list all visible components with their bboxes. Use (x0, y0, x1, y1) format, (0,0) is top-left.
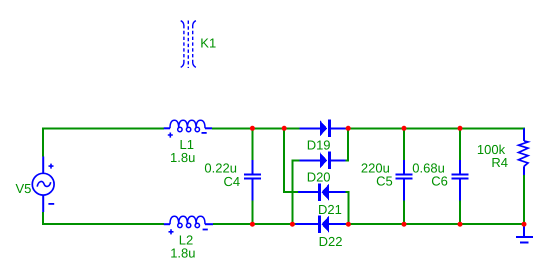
wire C5 bottom (403, 201, 405, 225)
voltage source V5 (32, 157, 54, 213)
capacitor C5 (396, 160, 413, 201)
wire bridge D20 to bottom rail vertical (292, 160, 299, 224)
diode D19 (300, 120, 346, 137)
inductor L1 (164, 120, 212, 137)
wire bridge left vertical (top rail to D21) (284, 128, 298, 192)
svg-text:R4: R4 (491, 155, 508, 170)
junction dots top rail (250, 126, 463, 131)
transformer coupling K1 (181, 21, 196, 69)
svg-text:1.8u: 1.8u (170, 150, 195, 165)
wire bottom rail middle (213, 223, 296, 225)
diode D22 (296, 216, 346, 233)
wire C6 bottom (459, 201, 461, 225)
svg-text:C5: C5 (376, 174, 393, 189)
wire bottom rail left (43, 212, 164, 224)
inductor L2 (164, 216, 213, 234)
junction dots bottom rail (250, 222, 527, 227)
resistor R4 (519, 128, 529, 175)
svg-text:D22: D22 (319, 234, 343, 249)
diode D20 (300, 152, 346, 169)
capacitor C4 (244, 160, 261, 201)
wire top rail middle (212, 127, 300, 129)
svg-text:C6: C6 (431, 173, 448, 188)
wire bottom rail right (345, 223, 524, 225)
svg-text:V5: V5 (16, 181, 32, 196)
svg-text:K1: K1 (200, 36, 216, 51)
wire C4 top (251, 128, 253, 160)
ground (516, 224, 533, 242)
capacitor C6 (452, 160, 469, 201)
wire C5 top (403, 128, 405, 160)
svg-text:C4: C4 (224, 174, 241, 189)
diode D21 (298, 184, 345, 201)
svg-text:D20: D20 (307, 170, 331, 185)
wire C4 bottom (251, 201, 253, 225)
svg-text:D19: D19 (307, 138, 331, 153)
wire top rail left (43, 128, 164, 156)
svg-text:D21: D21 (318, 202, 342, 217)
wire C6 top (459, 128, 461, 160)
wire D21 anode to bottom right dot (345, 192, 348, 224)
wire R4 bottom (523, 175, 525, 224)
wire top rail right (345, 128, 524, 129)
wire D20 cathode to top right dot (345, 128, 348, 160)
svg-text:1.8u: 1.8u (170, 246, 195, 261)
